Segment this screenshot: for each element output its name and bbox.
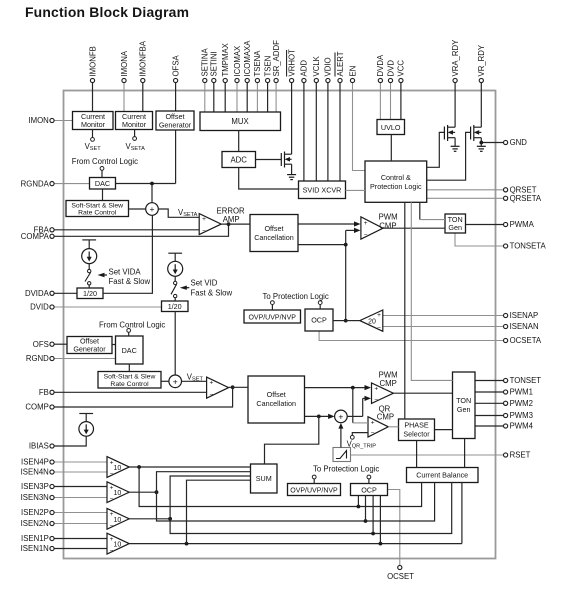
pin PWM1 <box>475 388 533 397</box>
wire summing junction output (VSET) to error amp + input <box>182 373 207 383</box>
ramp generator (sawtooth) <box>333 448 351 462</box>
svg-text:VDIO: VDIO <box>324 57 333 76</box>
svg-text:DVDA: DVDA <box>376 54 385 76</box>
wire ISEN3 amp output to SUM and bus 2 <box>129 472 434 523</box>
pin VCC <box>397 60 406 120</box>
pin QRSETA <box>427 194 542 203</box>
pin RSET (ramp generator resistor) <box>351 451 531 460</box>
svg-text:RGNDA: RGNDA <box>21 179 50 188</box>
node To Protection Logic (A) <box>263 292 329 310</box>
pin TMPMAX <box>221 42 230 112</box>
pin TONSET <box>475 376 541 385</box>
svg-text:DVD: DVD <box>386 60 395 77</box>
svg-text:−: − <box>210 392 214 399</box>
pin RGND <box>26 354 116 363</box>
pin SETINI <box>210 51 219 112</box>
pin PWM2 <box>475 399 533 408</box>
wire ISEN2 amp output to SUM and bus 3 <box>129 476 452 535</box>
svg-text:To Protection Logic: To Protection Logic <box>263 292 329 301</box>
svg-text:ISEN4N: ISEN4N <box>21 468 49 477</box>
svg-text:−: − <box>110 496 114 503</box>
svg-text:PWM1: PWM1 <box>510 388 533 397</box>
wire Control Logic to PHASE Selector <box>404 202 406 419</box>
junction GND net at Q2 source <box>479 141 483 145</box>
wire PWM CMP + node down to QR CMP + input <box>353 388 368 423</box>
pin IBIAS (to bias current source) <box>29 436 86 451</box>
svg-text:+: + <box>202 216 206 223</box>
pin ISEN4P <box>21 458 107 467</box>
svg-text:−: − <box>110 548 114 555</box>
svg-text:OCSET: OCSET <box>387 572 414 581</box>
svg-text:ISEN2P: ISEN2P <box>21 508 49 517</box>
wire soft-start A to summing junction A <box>129 208 146 210</box>
pin IMONA <box>120 50 129 111</box>
svg-text:+: + <box>173 376 178 386</box>
svg-text:ISEN1N: ISEN1N <box>21 544 49 553</box>
current source VID slew <box>168 253 183 276</box>
pin ISENAN <box>383 322 539 331</box>
wire ADC to Q3 gate <box>256 159 282 161</box>
wire PHASE Selector to TON Gen <box>435 429 453 431</box>
svg-text:ALERT: ALERT <box>336 51 345 76</box>
ground (under Q2) <box>477 146 486 151</box>
svg-text:10: 10 <box>114 465 122 472</box>
junction COMPA riser on error amp A output <box>227 222 231 226</box>
svg-text:Offset: Offset <box>264 224 283 233</box>
pin PWM3 <box>475 411 533 420</box>
wire 1/20 (DVIDA) output up to summing junction A <box>103 215 152 293</box>
svg-text:ICOMAXA: ICOMAXA <box>243 40 252 77</box>
svg-text:SVID XCVR: SVID XCVR <box>303 186 342 195</box>
svg-text:AMP: AMP <box>223 215 240 224</box>
svg-text:MUX: MUX <box>231 117 249 126</box>
pin RGNDA <box>21 179 90 188</box>
svg-text:SUM: SUM <box>256 474 272 483</box>
block OCP <box>351 484 388 496</box>
transistor Q3 (thermal monitor FET, drain to VRHOT) <box>281 152 291 175</box>
pin OCSET (bottom, from OCP) <box>387 490 414 582</box>
svg-text:OCP: OCP <box>361 486 377 495</box>
svg-text:UVLO: UVLO <box>381 123 401 132</box>
wire Offset Cancellation to PWM CMP + input <box>305 385 372 390</box>
wire Q2 gate to Control Logic <box>427 132 471 180</box>
block Soft-Start & Slew Rate Control <box>98 372 161 389</box>
pin EN (wire runs down into Control & Protection Logic) <box>348 66 365 171</box>
svg-text:ICOMAX: ICOMAX <box>233 45 242 77</box>
wire 1/20 (DVID) output down to summing junction <box>174 312 176 376</box>
pin ISEN2N <box>21 519 107 528</box>
wire OCP A tap <box>333 320 346 322</box>
svg-text:Cancellation: Cancellation <box>256 399 296 408</box>
svg-text:PWM2: PWM2 <box>510 399 533 408</box>
label Set VID Fast & Slow with arrow <box>180 279 233 298</box>
block OCP (A) <box>305 309 333 331</box>
svg-text:ISENAP: ISENAP <box>510 311 539 320</box>
svg-text:COMPA: COMPA <box>21 232 50 241</box>
svg-text:From Control Logic: From Control Logic <box>99 321 165 330</box>
amplifier 20x (ISENA droop) <box>360 310 383 332</box>
svg-text:SR_ADDF: SR_ADDF <box>272 40 281 77</box>
pin TSENA <box>253 50 262 112</box>
svg-text:DAC: DAC <box>95 179 110 188</box>
svg-text:ISEN1P: ISEN1P <box>21 534 49 543</box>
svg-text:ISEN3N: ISEN3N <box>21 493 49 502</box>
svg-text:−: − <box>110 523 114 530</box>
block Current Monitor (IMONFB) <box>73 112 114 130</box>
svg-text:From Control Logic: From Control Logic <box>72 157 138 166</box>
wire MUX to ADC <box>238 131 240 152</box>
svg-text:Cancellation: Cancellation <box>254 233 294 242</box>
svg-text:Monitor: Monitor <box>81 120 106 129</box>
block Offset Generator <box>67 337 112 354</box>
pin GND <box>481 138 527 147</box>
svg-text:−: − <box>110 471 114 478</box>
node VSETA (under Current Monitor A) <box>126 130 146 153</box>
svg-text:IMON: IMON <box>28 116 48 125</box>
wire SVID XCVR to Control Logic <box>346 189 366 191</box>
pin ISEN3N <box>21 493 107 502</box>
svg-text:TON: TON <box>456 396 471 405</box>
svg-text:Offset: Offset <box>267 390 286 399</box>
svg-text:OCSETA: OCSETA <box>510 336 542 345</box>
wire DAC bottom to soft-start <box>128 364 130 372</box>
pin PWM4 <box>475 422 534 431</box>
svg-text:TSENA: TSENA <box>253 50 262 77</box>
svg-text:CMP: CMP <box>379 222 396 231</box>
svg-text:CMP: CMP <box>380 379 397 388</box>
block UVLO <box>377 120 405 135</box>
wire ramp into summing junction (arrow up) <box>338 423 343 448</box>
svg-text:10: 10 <box>114 490 122 497</box>
wire Offset Cancellation A to PWM CMP A + input <box>298 221 361 226</box>
svg-text:Soft-Start & Slew: Soft-Start & Slew <box>104 374 156 381</box>
wire ADC to SVID XCVR <box>239 168 299 190</box>
block PHASE Selector <box>399 419 435 441</box>
summing junction (VSET) <box>169 375 182 388</box>
svg-text:OFSA: OFSA <box>171 54 180 76</box>
pin VRHOT (active low, open drain to thermal FET) <box>287 49 297 154</box>
svg-text:ISEN4P: ISEN4P <box>21 458 49 467</box>
svg-text:EN: EN <box>348 66 357 77</box>
node To Protection Logic <box>312 465 379 484</box>
svg-text:TONSET: TONSET <box>510 376 542 385</box>
pin PWMA <box>466 220 535 229</box>
block 1/20 divider (DVIDA) <box>77 288 103 299</box>
node VQR_TRIP <box>347 433 377 450</box>
block ADC <box>222 152 256 168</box>
pin ADD <box>300 60 309 181</box>
wire UVLO to Control Logic <box>390 135 392 162</box>
pin IMONFB <box>88 46 97 111</box>
pin COMPA (to error amp A output node) <box>21 224 229 241</box>
svg-text:OVP/UVP/NVP: OVP/UVP/NVP <box>248 315 296 322</box>
pin VR_RDY (open drain of Q2) <box>477 44 486 127</box>
block Current Monitor A (IMONA/IMONFBA) <box>116 112 153 130</box>
svg-text:OVP/UVP/NVP: OVP/UVP/NVP <box>290 488 338 495</box>
block 1/20 divider (DVID) <box>162 301 189 312</box>
wire TON Gen bottom to Current Balance <box>464 439 466 468</box>
pin ICOMAXA <box>243 40 252 112</box>
summing junction A (VSETA) <box>146 203 159 216</box>
transistor Q1 (VRA_RDY open drain) <box>444 125 455 146</box>
summing junction (ramp + droop) <box>335 410 348 423</box>
pin IMON <box>28 116 72 125</box>
pin ISENAP <box>383 311 538 320</box>
pin ISEN1N <box>21 544 107 553</box>
wire Offset Cancellation lower output to summing junction (arrow in) <box>305 414 335 419</box>
svg-text:ADC: ADC <box>230 156 247 165</box>
svg-text:+: + <box>364 220 368 227</box>
wire summing junction A output (VSETA) to error amp A + input <box>158 208 199 218</box>
comparator QR CMP <box>368 405 394 438</box>
amplifier 10x ISEN1 <box>107 533 129 554</box>
svg-text:FB: FB <box>39 388 49 397</box>
current source IBIAS <box>79 414 94 437</box>
pin SETINA <box>201 48 210 112</box>
wire DAC A output to offset generator A drop <box>116 130 176 203</box>
block DAC <box>116 336 144 364</box>
svg-text:ADD: ADD <box>300 60 309 77</box>
pin SR_ADDF <box>272 40 281 112</box>
svg-text:Gen: Gen <box>457 405 471 414</box>
wire QR CMP output to PHASE Selector <box>388 426 398 428</box>
wire error amp output to Offset Cancellation <box>229 386 248 388</box>
amplifier 10x ISEN2 <box>107 508 129 529</box>
svg-text:Rate Control: Rate Control <box>78 210 117 217</box>
current source VIDA slew <box>82 240 97 264</box>
svg-text:RGND: RGND <box>26 354 49 363</box>
block SUM <box>251 464 278 493</box>
switch VID fast/slow <box>171 276 177 301</box>
svg-text:Fast & Slow: Fast & Slow <box>109 277 151 286</box>
transistor Q2 (VR_RDY open drain) <box>471 125 482 146</box>
comparator PWM CMP A <box>361 213 398 240</box>
wire PHASE Selector to Current Balance <box>416 441 418 468</box>
block Offset Cancellation A <box>250 215 298 252</box>
svg-text:Rate Control: Rate Control <box>110 381 149 388</box>
wire DAC A bottom to soft-start A <box>102 189 104 201</box>
svg-text:IMONFB: IMONFB <box>88 46 97 76</box>
svg-text:Set VIDA: Set VIDA <box>109 268 142 277</box>
svg-text:PWM4: PWM4 <box>510 422 534 431</box>
pin OFSA <box>171 54 180 111</box>
pin DVDA <box>376 54 385 119</box>
svg-text:10: 10 <box>114 542 122 549</box>
pin QRSET <box>427 186 537 195</box>
svg-text:IBIAS: IBIAS <box>29 442 49 451</box>
svg-text:−: − <box>371 430 375 437</box>
pin TSEN <box>263 56 272 112</box>
svg-text:ISEN3P: ISEN3P <box>21 482 49 491</box>
wire offset generator to DAC <box>112 344 116 346</box>
pin COMP (to error amp output node) <box>25 387 232 411</box>
svg-text:OCP: OCP <box>311 316 327 325</box>
wire summing junction output to PWM CMP - input <box>347 396 371 417</box>
pin ISEN2P <box>21 508 107 517</box>
block Control & Protection Logic <box>365 161 427 202</box>
junction COMP riser on error amp output <box>231 385 235 389</box>
svg-text:1/20: 1/20 <box>168 302 182 311</box>
svg-text:IMONFBA: IMONFBA <box>139 40 148 76</box>
op-amp ERROR AMP <box>207 377 229 398</box>
pin DVID <box>30 303 161 312</box>
svg-text:20: 20 <box>368 319 376 326</box>
svg-text:10: 10 <box>114 517 122 524</box>
svg-text:+: + <box>371 420 375 427</box>
node VSET (under Current Monitor) <box>85 130 102 153</box>
wire Q1 gate to Control Logic <box>427 132 445 167</box>
svg-text:+: + <box>338 411 343 421</box>
svg-text:VCLK: VCLK <box>312 55 321 76</box>
pin TONSETA (from TON Gen A bottom) <box>455 233 547 251</box>
wire error amp A output to Offset Cancellation A <box>221 223 250 225</box>
block OVP/UVP/NVP (A) <box>244 310 301 323</box>
svg-text:RSET: RSET <box>510 451 531 460</box>
svg-text:+: + <box>150 204 155 214</box>
svg-text:CMP: CMP <box>377 413 394 422</box>
svg-text:+: + <box>374 386 378 393</box>
block Offset Cancellation <box>248 376 305 423</box>
wire Offset Cancellation A lower output / PWM CMP A - input riser <box>298 228 361 323</box>
svg-text:ISEN2N: ISEN2N <box>21 519 49 528</box>
node From Control Logic (DAC A input) <box>72 157 138 178</box>
wire SUM output riser into summing node <box>265 416 319 464</box>
node From Control Logic (DAC input) <box>99 321 165 337</box>
svg-text:TONSETA: TONSETA <box>510 242 547 251</box>
svg-text:PWM: PWM <box>379 213 398 222</box>
svg-text:SETINI: SETINI <box>210 51 219 76</box>
pin ISEN4N <box>21 468 107 477</box>
svg-text:−: − <box>202 228 206 235</box>
svg-text:DVIDA: DVIDA <box>25 289 50 298</box>
amplifier 10x ISEN4 <box>107 457 129 478</box>
wire ISEN1 amp output to SUM and bus 4 <box>129 480 462 545</box>
svg-text:PHASE: PHASE <box>404 421 429 430</box>
block TON Gen (multiphase) <box>453 372 476 439</box>
wire PWM CMP A output to TON Gen A <box>383 227 445 229</box>
svg-text:Generator: Generator <box>159 121 192 130</box>
svg-text:VCC: VCC <box>397 60 406 77</box>
svg-text:ISENAN: ISENAN <box>510 322 539 331</box>
svg-text:PWMA: PWMA <box>510 220 535 229</box>
svg-text:−: − <box>364 232 368 239</box>
block OVP/UVP/NVP <box>288 484 341 496</box>
svg-text:Protection Logic: Protection Logic <box>370 182 422 191</box>
pin FB (to error amp inverting input) <box>39 388 207 397</box>
svg-text:Function Block Diagram: Function Block Diagram <box>25 4 189 20</box>
pin VDIO <box>324 57 333 181</box>
svg-text:DAC: DAC <box>122 346 137 355</box>
svg-text:TMPMAX: TMPMAX <box>221 42 230 76</box>
svg-text:+: + <box>377 312 381 319</box>
amplifier 10x ISEN3 <box>107 482 129 503</box>
svg-text:1/20: 1/20 <box>83 289 97 298</box>
pin ISEN3P <box>21 482 107 491</box>
svg-text:Selector: Selector <box>403 430 430 439</box>
pin OFS <box>33 340 67 349</box>
pin FBA (to error amp A inverting input) <box>34 226 200 235</box>
svg-text:Set VID: Set VID <box>191 279 218 288</box>
svg-text:Control &: Control & <box>381 173 411 182</box>
pin ALERT (active low) <box>335 51 345 181</box>
svg-text:−: − <box>377 325 381 332</box>
block SVID XCVR <box>299 181 346 199</box>
pin OCSETA (from OCP A) <box>319 331 542 345</box>
op-amp ERROR AMP A <box>199 207 245 236</box>
svg-text:GND: GND <box>510 138 528 147</box>
svg-text:IMONA: IMONA <box>120 50 129 76</box>
block Current Balance <box>407 468 479 483</box>
block MUX <box>200 112 281 131</box>
block DAC (VIDA) <box>90 178 116 190</box>
svg-text:Fast & Slow: Fast & Slow <box>191 289 233 298</box>
pin ISEN1P <box>21 534 107 543</box>
svg-text:−: − <box>374 397 378 404</box>
wire 20x amp output into comp line <box>346 320 360 322</box>
svg-text:Generator: Generator <box>73 345 106 354</box>
block Offset Generator A <box>156 111 194 130</box>
pin ICOMAX <box>233 45 242 112</box>
switch VIDA fast/slow <box>85 264 91 288</box>
wire Control Logic to TON Gen A enable <box>420 202 445 219</box>
svg-text:PWM3: PWM3 <box>510 411 533 420</box>
svg-text:COMP: COMP <box>25 403 48 412</box>
ground (under Q3) <box>287 175 296 180</box>
svg-text:OFS: OFS <box>33 340 49 349</box>
block Soft-Start & Slew Rate Control (A) <box>66 201 129 217</box>
pin DVIDA <box>25 289 77 298</box>
svg-text:+: + <box>210 380 214 387</box>
svg-text:VR_RDY: VR_RDY <box>477 44 486 76</box>
svg-text:SETINA: SETINA <box>201 48 210 77</box>
svg-text:QRSETA: QRSETA <box>510 194 542 203</box>
svg-text:To Protection Logic: To Protection Logic <box>313 465 379 474</box>
pin DVD <box>386 60 395 120</box>
comparator PWM CMP <box>372 371 398 404</box>
wire soft-start to summing junction <box>161 380 169 382</box>
label Set VIDA Fast & Slow with arrow <box>98 268 151 286</box>
svg-text:VRHOT: VRHOT <box>287 49 296 77</box>
pin VCLK <box>312 55 321 181</box>
svg-text:Current Balance: Current Balance <box>416 471 468 480</box>
pin IMONFBA <box>139 40 148 111</box>
svg-text:VRA_RDY: VRA_RDY <box>451 39 460 77</box>
block TON Gen A <box>445 214 466 233</box>
svg-text:DVID: DVID <box>30 303 49 312</box>
wire PWM CMP output to TON Gen <box>393 392 452 394</box>
IC outer boundary <box>64 91 496 559</box>
wire Control Logic to TON Gen <box>411 202 452 380</box>
wire ISEN4 amp output to SUM and bus 1 <box>129 465 421 508</box>
svg-text:Gen: Gen <box>448 223 462 232</box>
svg-text:Soft-Start & Slew: Soft-Start & Slew <box>71 203 123 210</box>
svg-text:Monitor: Monitor <box>122 120 147 129</box>
ground (under Q1) <box>451 146 460 151</box>
pin VRA_RDY (open drain of Q1) <box>451 39 460 127</box>
